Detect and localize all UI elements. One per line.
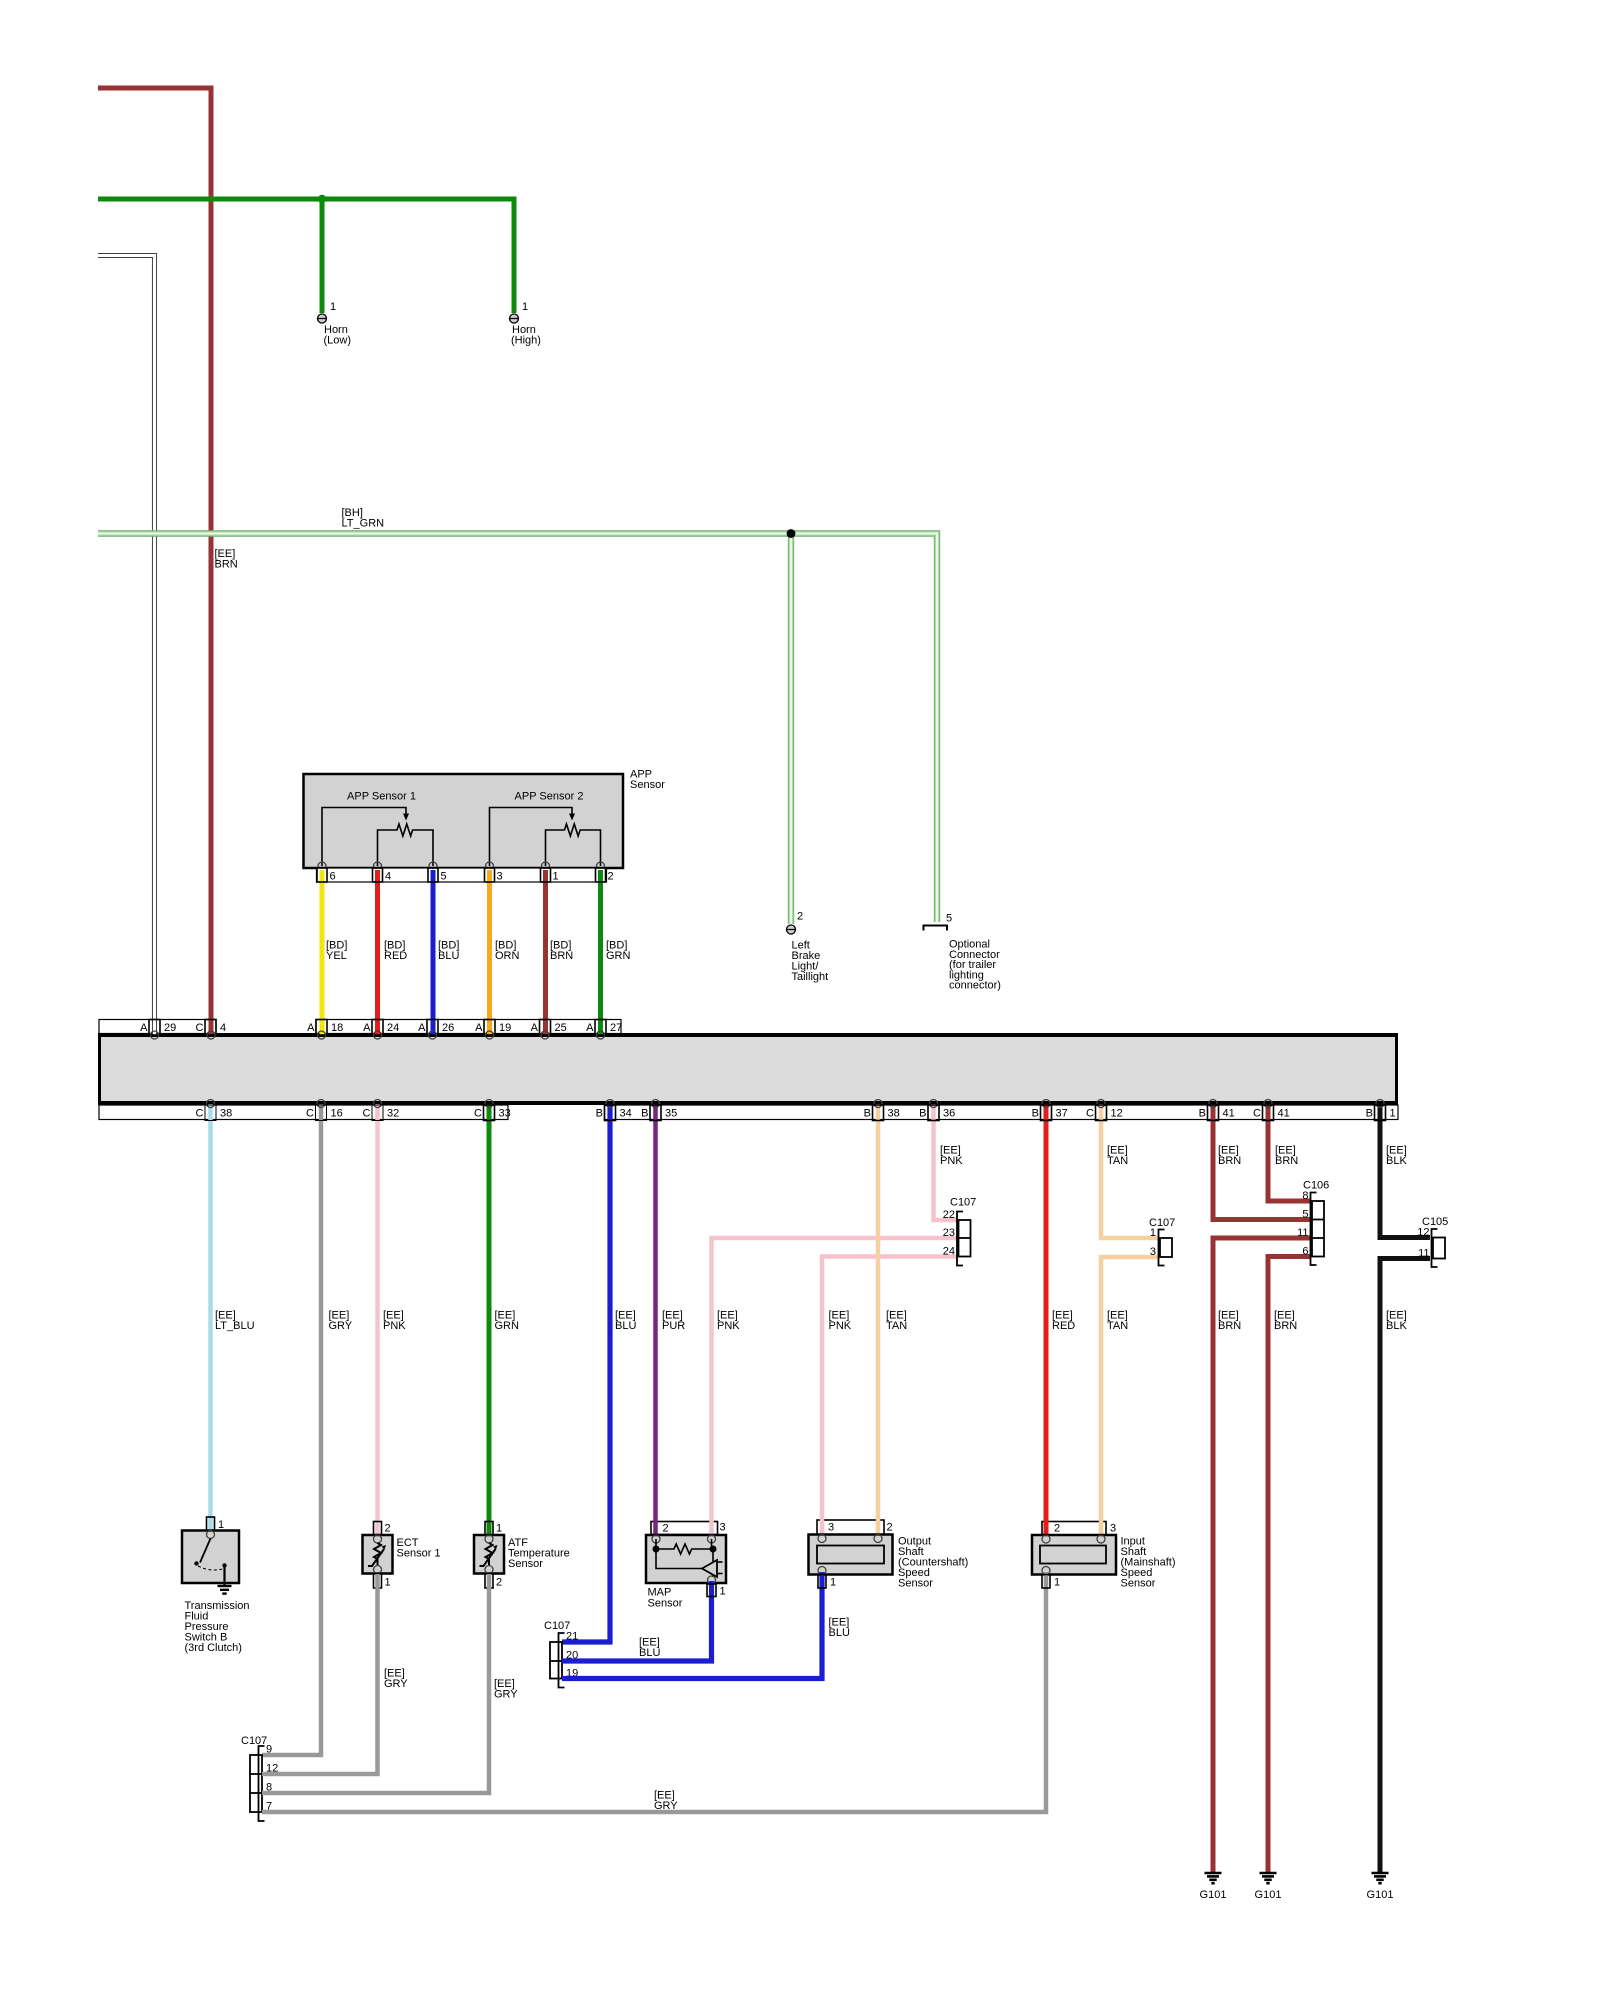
top pin circles bbox=[151, 1031, 159, 1039]
wire [BH] LT_GRN bbox=[98, 534, 937, 923]
svg-text:C: C bbox=[306, 1108, 314, 1120]
ground G101 middle bbox=[1255, 1873, 1282, 1901]
pin box A18 bbox=[316, 1020, 327, 1036]
svg-text:connector): connector) bbox=[949, 980, 1001, 992]
input shaft pin 1 box bbox=[262, 1572, 1046, 1812]
svg-text:C: C bbox=[363, 1108, 371, 1120]
svg-text:PUR: PUR bbox=[662, 1320, 685, 1332]
transmission fluid pressure switch B box bbox=[182, 1531, 239, 1584]
svg-text:B: B bbox=[641, 1108, 648, 1120]
bottom pin B41 bbox=[1208, 1105, 1219, 1121]
top pin strip segment 2 bbox=[316, 1020, 621, 1034]
bottom pin C33 bbox=[484, 1105, 495, 1121]
pin box A26 bbox=[427, 1020, 438, 1036]
svg-text:B: B bbox=[1199, 1108, 1206, 1120]
top pin strip segment 1 bbox=[99, 1020, 216, 1034]
wire [EE] BRN C41 bbox=[1268, 1104, 1310, 1201]
svg-text:BLK: BLK bbox=[1386, 1320, 1407, 1332]
svg-text:2: 2 bbox=[496, 1577, 502, 1589]
pin box A29 bbox=[149, 1020, 160, 1036]
svg-text:A: A bbox=[586, 1022, 594, 1034]
connector C106 bbox=[1311, 1193, 1317, 1266]
svg-text:C: C bbox=[1253, 1108, 1261, 1120]
switch blade bbox=[200, 1539, 211, 1563]
svg-text:1: 1 bbox=[385, 1577, 391, 1589]
svg-text:22: 22 bbox=[943, 1209, 955, 1221]
wire [EE] LT_BLU C38 bbox=[208, 1104, 213, 1532]
svg-text:C: C bbox=[1086, 1108, 1094, 1120]
svg-text:6: 6 bbox=[1302, 1246, 1308, 1258]
svg-text:GRY: GRY bbox=[654, 1800, 678, 1812]
output shaft speed sensor box bbox=[809, 1535, 893, 1575]
svg-text:41: 41 bbox=[1223, 1108, 1235, 1120]
input shaft speed sensor box bbox=[1032, 1535, 1116, 1575]
svg-text:8: 8 bbox=[1302, 1190, 1308, 1202]
bottom pin B35 bbox=[650, 1105, 661, 1121]
ATF temperature sensor box bbox=[474, 1535, 504, 1574]
svg-text:C107: C107 bbox=[950, 1197, 976, 1209]
wire [BD] BLU bbox=[431, 870, 436, 1035]
bottom pin C16 bbox=[316, 1105, 327, 1121]
ATF pin 1 box bbox=[485, 1522, 493, 1536]
svg-text:1: 1 bbox=[218, 1519, 224, 1531]
svg-text:APP Sensor 1: APP Sensor 1 bbox=[347, 791, 416, 803]
svg-text:1: 1 bbox=[522, 301, 528, 313]
pin box A27 bbox=[595, 1020, 606, 1036]
bottom pin B36 bbox=[928, 1105, 939, 1121]
wire horn GRN bbox=[98, 199, 514, 313]
svg-text:GRY: GRY bbox=[329, 1320, 353, 1332]
MAP internal amp wire bbox=[656, 1549, 702, 1569]
junction horn green bbox=[318, 195, 326, 203]
svg-text:G101: G101 bbox=[1367, 1889, 1394, 1901]
svg-text:12: 12 bbox=[1417, 1227, 1429, 1239]
wire LT_GRN brake branch bbox=[788, 534, 794, 925]
svg-text:Sensor: Sensor bbox=[648, 1598, 683, 1610]
bottom pin strip segment 1 bbox=[99, 1105, 508, 1120]
sensor connector strips bbox=[651, 1522, 718, 1535]
wire [EE] BRN B41 bbox=[1213, 1104, 1310, 1220]
svg-text:TAN: TAN bbox=[1107, 1155, 1128, 1167]
MAP internal resistor bbox=[655, 1539, 657, 1549]
svg-text:6: 6 bbox=[330, 871, 336, 883]
bottom pin circles bbox=[207, 1100, 215, 1108]
MAP sensor box bbox=[646, 1535, 726, 1583]
ATF thermistor bbox=[485, 1535, 493, 1543]
pin box C4 bbox=[209, 1020, 214, 1035]
svg-text:2: 2 bbox=[797, 911, 803, 923]
svg-text:1: 1 bbox=[496, 1523, 502, 1535]
svg-text:(High): (High) bbox=[511, 335, 541, 347]
connector C107 pins 1 3 bbox=[1159, 1230, 1165, 1266]
ground G101 left bbox=[1200, 1873, 1227, 1901]
bottom pin C38 bbox=[205, 1105, 216, 1121]
wire [EE] GRN C33 bbox=[487, 1104, 492, 1537]
wire [EE] BRN C106 pin6 to ground bbox=[1268, 1257, 1310, 1873]
svg-text:A: A bbox=[140, 1022, 148, 1034]
svg-text:Sensor: Sensor bbox=[1121, 1578, 1156, 1590]
bottom pin B34 bbox=[605, 1105, 616, 1121]
pin box A25 bbox=[540, 1020, 551, 1036]
svg-text:PNK: PNK bbox=[717, 1320, 740, 1332]
svg-text:3: 3 bbox=[497, 871, 503, 883]
ECT pin 1 box bbox=[374, 1574, 382, 1589]
svg-text:38: 38 bbox=[220, 1108, 232, 1120]
ATF pin 2 box bbox=[485, 1574, 493, 1589]
svg-text:TAN: TAN bbox=[1107, 1320, 1128, 1332]
svg-text:A: A bbox=[475, 1022, 483, 1034]
svg-text:BLU: BLU bbox=[615, 1320, 636, 1332]
MAP pin 1 box bbox=[562, 1581, 712, 1661]
svg-text:11: 11 bbox=[1418, 1248, 1429, 1260]
svg-text:4: 4 bbox=[220, 1022, 226, 1034]
top wires into strip bbox=[152, 1018, 157, 1035]
wire [EE] BLK B1 bbox=[1380, 1104, 1430, 1238]
svg-text:BRN: BRN bbox=[1218, 1155, 1241, 1167]
wire [EE] PUR B35 bbox=[653, 1104, 658, 1537]
svg-text:4: 4 bbox=[385, 871, 391, 883]
svg-text:BRN: BRN bbox=[550, 950, 573, 962]
horn high terminal bbox=[510, 314, 519, 323]
wire [EE] BRN C106 pin11 to ground bbox=[1213, 1238, 1310, 1872]
svg-text:2: 2 bbox=[385, 1523, 391, 1535]
optional connector symbol bbox=[924, 926, 948, 931]
connector C107 pins 9 12 8 7 bbox=[259, 1746, 265, 1821]
ECT pin 2 box bbox=[374, 1522, 382, 1536]
svg-text:3: 3 bbox=[1150, 1246, 1156, 1258]
wire [EE] PNK C32 bbox=[375, 1104, 380, 1537]
svg-text:B: B bbox=[864, 1108, 871, 1120]
svg-text:A: A bbox=[418, 1022, 426, 1034]
svg-text:41: 41 bbox=[1278, 1108, 1290, 1120]
svg-text:12: 12 bbox=[1111, 1108, 1123, 1120]
wire WHT bbox=[98, 256, 155, 1036]
wire [EE] BLK C105 pin11 to ground bbox=[1380, 1259, 1430, 1873]
svg-text:2: 2 bbox=[1054, 1523, 1060, 1535]
svg-text:B: B bbox=[596, 1108, 603, 1120]
wire [EE] TAN B38 bbox=[876, 1104, 881, 1537]
APP sensor 2 wiper wire bbox=[490, 808, 573, 867]
svg-text:Sensor: Sensor bbox=[508, 1558, 543, 1570]
svg-text:LT_GRN: LT_GRN bbox=[342, 518, 385, 530]
svg-text:2: 2 bbox=[887, 1522, 893, 1534]
svg-text:PNK: PNK bbox=[829, 1320, 852, 1332]
svg-text:33: 33 bbox=[499, 1108, 511, 1120]
svg-text:21: 21 bbox=[566, 1631, 578, 1643]
ECT thermistor bbox=[374, 1535, 382, 1543]
wire [EE] GRY ATF pin2 bbox=[262, 1574, 489, 1793]
svg-text:1: 1 bbox=[1150, 1227, 1156, 1239]
APP pin circles bbox=[318, 862, 326, 870]
svg-text:1: 1 bbox=[1390, 1108, 1396, 1120]
svg-text:38: 38 bbox=[888, 1108, 900, 1120]
wire [EE] BLU B34 bbox=[562, 1104, 610, 1642]
wire [EE] TAN C12 bbox=[1101, 1104, 1158, 1238]
svg-text:C107: C107 bbox=[241, 1735, 267, 1747]
svg-text:1: 1 bbox=[720, 1586, 726, 1598]
junction LT_GRN bbox=[787, 529, 796, 538]
bottom pin C12 bbox=[1096, 1105, 1107, 1121]
wire horn GRN branch bbox=[320, 199, 325, 313]
svg-text:C: C bbox=[196, 1108, 204, 1120]
svg-text:1: 1 bbox=[1054, 1577, 1060, 1589]
svg-text:TAN: TAN bbox=[886, 1320, 907, 1332]
connector C105 bbox=[1432, 1229, 1438, 1267]
svg-text:BLU: BLU bbox=[829, 1627, 850, 1639]
svg-text:RED: RED bbox=[1052, 1320, 1075, 1332]
svg-text:Sensor: Sensor bbox=[898, 1578, 933, 1590]
APP connector strip bbox=[317, 868, 607, 882]
svg-text:A: A bbox=[363, 1022, 371, 1034]
svg-text:19: 19 bbox=[499, 1022, 511, 1034]
svg-text:(3rd Clutch): (3rd Clutch) bbox=[185, 1642, 242, 1654]
svg-text:(Low): (Low) bbox=[324, 335, 352, 347]
APP sensor 2 potentiometer R bbox=[546, 824, 601, 866]
pin box A24 bbox=[372, 1020, 383, 1036]
svg-text:3: 3 bbox=[720, 1522, 726, 1534]
svg-text:C: C bbox=[196, 1022, 204, 1034]
connector C107 pins 21 20 19 bbox=[559, 1633, 565, 1688]
svg-text:36: 36 bbox=[943, 1108, 955, 1120]
ground G101 right bbox=[1367, 1873, 1394, 1901]
wire [EE] GRY ECT pin1 bbox=[262, 1574, 378, 1774]
wire [EE] BRN horn feed bbox=[98, 88, 211, 1033]
switch dashed arc bbox=[198, 1566, 223, 1570]
svg-text:GRY: GRY bbox=[494, 1689, 518, 1701]
svg-text:1: 1 bbox=[330, 301, 336, 313]
svg-text:25: 25 bbox=[555, 1022, 567, 1034]
svg-text:1: 1 bbox=[553, 871, 559, 883]
svg-text:BRN: BRN bbox=[1275, 1155, 1298, 1167]
svg-text:A: A bbox=[307, 1022, 315, 1034]
svg-text:Sensor 1: Sensor 1 bbox=[397, 1548, 441, 1560]
APP sensor 1 wiper wire bbox=[322, 808, 406, 867]
svg-text:11: 11 bbox=[1297, 1227, 1308, 1239]
APP pin boxes bbox=[317, 868, 327, 882]
bottom pin B37 bbox=[1041, 1105, 1052, 1121]
svg-text:A: A bbox=[531, 1022, 539, 1034]
bottom pin B1 bbox=[1375, 1105, 1386, 1121]
bottom pin C32 bbox=[372, 1105, 383, 1121]
svg-text:RED: RED bbox=[384, 950, 407, 962]
pin box A19 bbox=[484, 1020, 495, 1036]
svg-text:27: 27 bbox=[610, 1022, 622, 1034]
svg-text:16: 16 bbox=[331, 1108, 343, 1120]
wire [EE] PNK C107-24 to output shaft bbox=[822, 1257, 957, 1537]
svg-text:G101: G101 bbox=[1255, 1889, 1282, 1901]
wire [EE] PNK C107-23 to MAP bbox=[712, 1238, 958, 1537]
svg-text:G101: G101 bbox=[1200, 1889, 1227, 1901]
svg-text:BLK: BLK bbox=[1386, 1155, 1407, 1167]
wire [EE] TAN C107 pin3 to input shaft bbox=[1101, 1257, 1158, 1537]
svg-text:Sensor: Sensor bbox=[630, 779, 665, 791]
svg-text:29: 29 bbox=[164, 1022, 176, 1034]
svg-text:5: 5 bbox=[946, 913, 952, 925]
wire [BD] ORN bbox=[487, 870, 492, 1035]
wire [BD] GRN bbox=[598, 870, 603, 1035]
ECT sensor 1 box bbox=[363, 1535, 393, 1574]
wire [BD] BRN bbox=[543, 870, 548, 1035]
left brake light terminal bbox=[787, 925, 796, 934]
switch pin 1 box bbox=[207, 1517, 215, 1531]
svg-text:BRN: BRN bbox=[215, 559, 238, 571]
svg-text:B: B bbox=[1032, 1108, 1039, 1120]
svg-text:APP Sensor 2: APP Sensor 2 bbox=[515, 791, 584, 803]
wire [BD] YEL bbox=[320, 870, 325, 1035]
svg-text:34: 34 bbox=[620, 1108, 632, 1120]
svg-text:3: 3 bbox=[1110, 1523, 1116, 1535]
switch internal ground bbox=[223, 1566, 225, 1587]
connector C107 pins 22 23 24 bbox=[957, 1212, 963, 1266]
svg-text:37: 37 bbox=[1056, 1108, 1068, 1120]
svg-text:1: 1 bbox=[830, 1577, 836, 1589]
svg-text:B: B bbox=[919, 1108, 926, 1120]
output shaft pin 1 box bbox=[562, 1572, 822, 1679]
svg-text:2: 2 bbox=[608, 871, 614, 883]
svg-text:C: C bbox=[474, 1108, 482, 1120]
svg-text:B: B bbox=[1366, 1108, 1373, 1120]
svg-text:2: 2 bbox=[663, 1523, 669, 1535]
svg-text:18: 18 bbox=[331, 1022, 343, 1034]
svg-text:32: 32 bbox=[387, 1108, 399, 1120]
svg-text:PNK: PNK bbox=[940, 1155, 963, 1167]
svg-text:26: 26 bbox=[442, 1022, 454, 1034]
svg-text:5: 5 bbox=[1302, 1209, 1308, 1221]
bottom pin C41 bbox=[1263, 1105, 1274, 1121]
horn low terminal bbox=[318, 314, 327, 323]
bottom pin strip segment 2 bbox=[605, 1105, 1399, 1120]
svg-text:GRN: GRN bbox=[495, 1320, 520, 1332]
svg-text:23: 23 bbox=[943, 1227, 955, 1239]
svg-text:GRY: GRY bbox=[384, 1678, 408, 1690]
svg-text:ORN: ORN bbox=[495, 950, 520, 962]
svg-text:35: 35 bbox=[665, 1108, 677, 1120]
svg-text:GRN: GRN bbox=[606, 950, 631, 962]
APP sensor 1 potentiometer R bbox=[378, 824, 434, 866]
svg-text:3: 3 bbox=[828, 1522, 834, 1534]
svg-text:YEL: YEL bbox=[326, 950, 347, 962]
svg-text:BLU: BLU bbox=[639, 1647, 660, 1659]
svg-text:LT_BLU: LT_BLU bbox=[215, 1320, 255, 1332]
svg-text:Taillight: Taillight bbox=[792, 971, 829, 983]
svg-text:5: 5 bbox=[441, 871, 447, 883]
svg-text:PNK: PNK bbox=[383, 1320, 406, 1332]
wire [EE] RED B37 bbox=[1044, 1104, 1049, 1537]
wire [EE] PNK B36 bbox=[934, 1104, 958, 1220]
APP Sensor box bbox=[304, 774, 624, 868]
svg-text:BRN: BRN bbox=[1218, 1320, 1241, 1332]
svg-text:24: 24 bbox=[387, 1022, 399, 1034]
wire [BD] RED bbox=[375, 870, 380, 1035]
svg-text:BLU: BLU bbox=[438, 950, 459, 962]
switch pin circle bbox=[207, 1531, 215, 1539]
bottom pin B38 bbox=[873, 1105, 884, 1121]
wire [EE] GRY C16 bbox=[262, 1104, 321, 1755]
MAP amplifier triangle bbox=[702, 1560, 717, 1577]
ECM PCM bar bbox=[98, 1033, 1398, 1105]
svg-text:24: 24 bbox=[943, 1246, 955, 1258]
svg-text:BRN: BRN bbox=[1274, 1320, 1297, 1332]
svg-text:9: 9 bbox=[266, 1744, 272, 1756]
